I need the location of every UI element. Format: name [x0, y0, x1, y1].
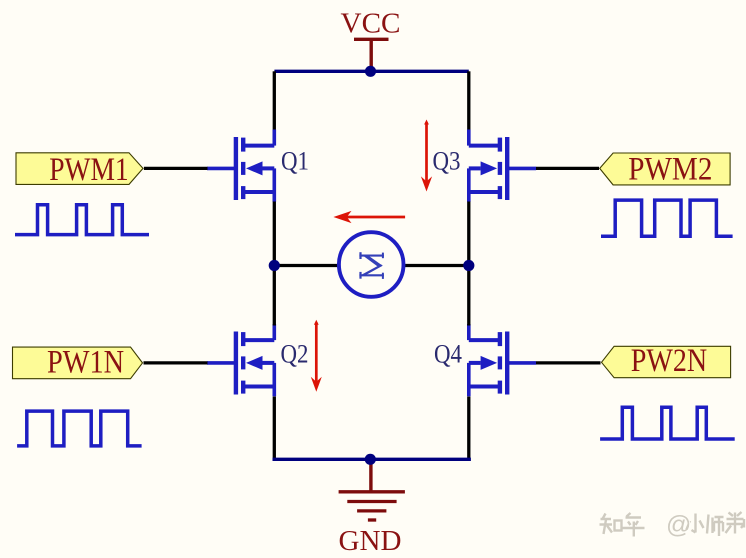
transistor Q1 — [207, 130, 274, 202]
node A junction dot — [269, 260, 280, 271]
node B junction dot — [463, 260, 474, 271]
svg-text:@: @ — [666, 511, 691, 539]
PW1N waveform — [17, 411, 142, 446]
node: VCC junction dot — [365, 66, 376, 77]
svg-text:PWM1: PWM1 — [49, 152, 129, 188]
wire: top rail to Q1 drain — [273, 71, 276, 130]
transistor Q3 — [469, 130, 536, 202]
wire: top rail VCC net — [274, 70, 468, 73]
svg-text:VCC: VCC — [341, 8, 401, 40]
svg-text:PWM2: PWM2 — [628, 152, 712, 188]
port PW1N — [13, 344, 143, 380]
svg-text:Q1: Q1 — [281, 147, 309, 176]
wire: PW2N to Q4 gate — [536, 361, 601, 364]
port PWM1 — [16, 152, 143, 188]
transistor Q4 — [469, 324, 536, 396]
PW2N waveform — [600, 407, 735, 439]
wire: Q3 source to node B — [467, 202, 470, 266]
ground symbol — [339, 460, 405, 520]
svg-text:PW1N: PW1N — [47, 344, 124, 380]
svg-text:PW2N: PW2N — [631, 343, 708, 379]
wire: node A to motor — [274, 264, 339, 267]
current arrow: Q3 branch (down) — [421, 120, 432, 192]
svg-text:Q3: Q3 — [433, 147, 461, 176]
motor M — [339, 232, 404, 297]
wire: PWM2 to Q3 gate — [536, 167, 599, 170]
wire: node B to Q4 drain — [467, 266, 470, 326]
wire: bottom rail GND net — [273, 458, 471, 461]
current arrow: motor direction (left) — [333, 211, 405, 223]
current arrow: Q2 branch (down) — [311, 320, 322, 392]
PWM1 waveform — [15, 205, 149, 235]
svg-text:Q2: Q2 — [281, 340, 309, 369]
svg-text:GND: GND — [339, 525, 402, 557]
wire: PWM1 to Q1 gate — [144, 167, 208, 170]
wire: motor to node B — [403, 264, 468, 267]
wire: PW1N to Q2 gate — [144, 361, 208, 364]
node: GND junction dot — [365, 454, 376, 465]
PWM2 waveform — [601, 200, 733, 236]
wire: Q4 source to bottom rail — [467, 397, 470, 460]
port PWM2 — [600, 152, 730, 188]
wire: Q2 source to bottom rail — [273, 397, 276, 460]
wire: node A to Q2 drain — [273, 266, 276, 326]
svg-text:Q4: Q4 — [434, 340, 462, 369]
wire: Q1 source to node A — [273, 202, 276, 266]
power symbol VCC — [354, 39, 389, 68]
port PW2N — [602, 343, 731, 379]
wire: top rail to Q3 drain — [467, 71, 470, 130]
transistor Q2 — [207, 324, 274, 396]
